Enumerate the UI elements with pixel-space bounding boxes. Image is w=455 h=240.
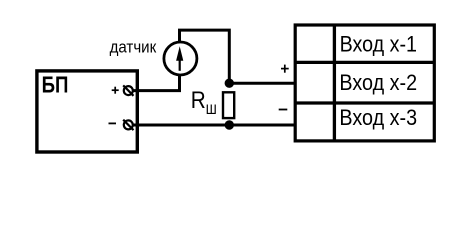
label датчик [110,37,157,56]
svg-text:Вход х-2: Вход х-2 [339,70,417,95]
label + at terminal block [281,65,289,73]
svg-text:R: R [191,87,206,114]
svg-text:БП: БП [42,71,69,97]
wire node A to terminal Вход х-2 [229,82,296,85]
terminal block (3 rows) [295,25,434,141]
label БП [42,71,69,97]
terminal + on BP (slashed circle) [123,85,133,95]
label Вход х-1 [340,31,417,56]
shunt resistor Rш [223,92,234,118]
svg-text:Вход х-1: Вход х-1 [340,31,417,56]
current source arrow [176,46,183,71]
power supply box БП [37,71,137,152]
svg-text:ш: ш [206,98,217,118]
terminal - on BP (slashed circle) [123,120,133,130]
wire sensor top to node A [180,30,230,83]
label Rш [191,87,217,118]
node A (junction dot top) [225,79,234,88]
wire - terminal of BP to terminal Вход х-3 [131,124,296,127]
label - at terminal block [279,109,288,111]
wire + terminal of BP to sensor bottom [132,74,180,91]
node B (junction dot bottom) [225,120,234,129]
label - at BP terminal [109,122,117,124]
svg-text:Вход х-3: Вход х-3 [339,105,417,130]
label Вход х-2 [339,70,417,95]
label Вход х-3 [339,105,417,130]
label + at BP terminal [112,87,119,94]
svg-text:датчик: датчик [110,37,157,56]
current source датчик (circle) [164,42,197,75]
